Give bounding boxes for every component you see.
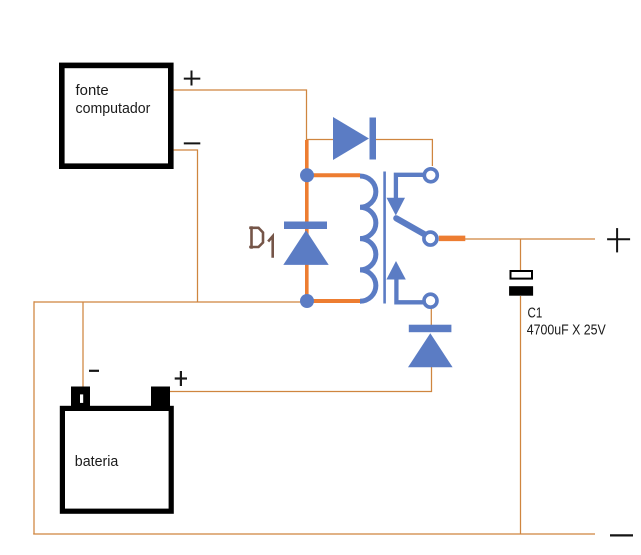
plus sign fonte output [184, 71, 201, 86]
minus sign fonte output [184, 142, 201, 144]
relay core line [383, 172, 386, 304]
wire vertical D1 branch [305, 140, 309, 301]
svg-text:bateria: bateria [75, 454, 119, 470]
battery terminal tab negative [71, 387, 90, 408]
relay bottom contact circle [424, 294, 437, 307]
wire fonte + to node [174, 90, 307, 140]
svg-text:fonte: fonte [76, 83, 109, 99]
wire battery + to bottom diode [168, 367, 432, 392]
bateria box [62, 408, 171, 511]
diode D1 triangle [283, 230, 328, 265]
wire coil bottom [307, 299, 360, 303]
bottom diode triangle [408, 333, 453, 367]
capacitor C1 top plate [511, 271, 533, 279]
relay arm from top contact [396, 175, 424, 199]
wire negative bus horizontal [34, 301, 306, 303]
wire capacitor top drop [520, 239, 522, 270]
wire fonte - down [174, 150, 198, 302]
relay up arrow [386, 261, 405, 280]
node junction dot bottom [300, 294, 314, 308]
diode D2 top cathode bar [370, 118, 377, 160]
fonte computador box [62, 65, 171, 166]
wire common to plus output [465, 238, 595, 240]
svg-text:4700uF X 25V: 4700uF X 25V [527, 322, 607, 339]
capacitor C1 bottom plate [509, 286, 533, 296]
diode D2 top triangle [333, 117, 369, 160]
wire capacitor bottom drop [520, 296, 522, 534]
relay arm to bottom contact [396, 279, 423, 302]
relay arm down arrow [387, 198, 406, 216]
minus sign battery [89, 370, 99, 372]
wire battery - drop [82, 302, 84, 388]
relay switch blade [396, 218, 428, 236]
wire relay bottom contact to bottom diode [430, 309, 432, 326]
relay common contact circle [424, 232, 437, 245]
wire coil top [307, 173, 360, 177]
minus sign bottom right [610, 534, 633, 536]
svg-text:C1: C1 [528, 305, 543, 322]
bottom diode cathode bar [409, 325, 452, 333]
wire left drop [33, 301, 35, 534]
wire diode cathode to relay top contact [376, 140, 432, 167]
relay top contact circle [424, 169, 437, 182]
battery terminal tab notch [80, 394, 83, 403]
plus sign battery [175, 371, 187, 386]
wire relay common thick [439, 236, 466, 242]
diode D1 cathode bar [284, 222, 327, 230]
node junction dot top [300, 168, 314, 182]
battery terminal tab positive [151, 387, 170, 408]
label D1 [251, 228, 273, 257]
svg-text:computador: computador [76, 101, 151, 117]
wire bottom bus [33, 533, 595, 535]
relay coil [360, 176, 376, 301]
plus sign right output [607, 228, 630, 252]
wire node to diode anode [307, 139, 334, 141]
